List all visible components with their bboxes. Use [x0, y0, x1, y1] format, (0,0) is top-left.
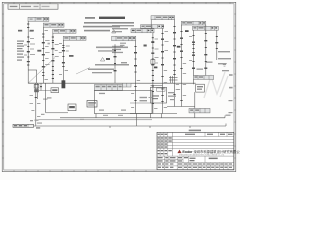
V3 side text marks — [48, 43, 59, 57]
breakers on VR136 — [134, 46, 137, 73]
main horizontal bus y83 — [28, 82, 195, 84]
svg-text:SHENZHEN KEYUAN ARCHITECTURAL: SHENZHEN KEYUAN ARCHITECTURAL DESIGN CO.… — [179, 154, 225, 157]
designator label WL1 — [18, 30, 22, 32]
right feeder header strip R3b — [193, 26, 219, 30]
feeder header strip S3 — [53, 29, 76, 33]
feeder wire VR183 — [181, 25, 183, 107]
feeder wire V1 — [27, 21, 29, 70]
contactor block on V4 — [62, 80, 66, 88]
load calc text block — [83, 22, 134, 31]
panel outline rectangle — [94, 91, 152, 114]
right feeder header strip R2a — [141, 25, 164, 29]
mid text rows — [96, 47, 128, 52]
leader line from box B1 — [29, 58, 55, 83]
breaker symbols on V4 — [62, 45, 65, 63]
bottom grid dividers — [188, 163, 229, 170]
title block middle dividers — [165, 156, 206, 170]
breaker symbols on V2 — [42, 37, 45, 74]
title block upper column dividers — [160, 132, 227, 156]
R4 under-strip text — [120, 43, 126, 46]
watermark diagonal strokes — [204, 72, 228, 98]
bottom-left strip — [13, 124, 34, 127]
component speckle marks — [27, 24, 198, 117]
company logo triangle — [177, 150, 181, 154]
label box L3 — [68, 104, 76, 111]
right feeder header strip R4 — [112, 36, 136, 41]
tick marks on bottom bus — [110, 126, 190, 128]
horizontal segment y106.5 — [167, 106, 195, 108]
box R with text — [196, 84, 205, 92]
warning triangle 1 — [112, 30, 116, 33]
leader diagonal to note — [76, 68, 90, 75]
feeder wire VR176 — [174, 20, 176, 107]
feeder wire VR206 — [205, 25, 207, 76]
horizontal long line y117.8 — [60, 117, 225, 119]
feeder wire VR115 — [114, 44, 116, 83]
revision row texts — [158, 137, 172, 154]
title block row A texts — [158, 134, 233, 135]
CT box on VR152 — [151, 60, 155, 65]
connector drops to bus — [96, 113, 226, 126]
V1 side text marks — [24, 38, 35, 56]
feeder wire VR161 — [162, 28, 164, 113]
feeder wire V3 — [52, 33, 54, 83]
ground symbol right — [222, 64, 227, 67]
VR161 side text — [165, 31, 169, 51]
distribution box B1 — [28, 70, 36, 83]
horizontal long line y126 — [13, 125, 226, 127]
title block horizontal rules — [157, 137, 234, 166]
V4 side text marks — [59, 46, 70, 54]
connector to label box L1 — [39, 90, 51, 92]
VR176 crossing bars — [169, 76, 178, 83]
VR150 side text — [155, 39, 159, 64]
feeder wire V4 — [62, 40, 64, 83]
svg-text:深圳市科源建筑设计研究有限公司: 深圳市科源建筑设计研究有限公司 — [194, 149, 241, 154]
right feeder header strip R1 — [151, 16, 175, 20]
breaker symbols on V1 — [27, 37, 30, 63]
V2 side text marks — [45, 40, 50, 65]
inner border frame — [4, 4, 234, 170]
triangle label — [106, 58, 110, 60]
label text near VR152 — [144, 45, 147, 47]
text above box R — [197, 62, 213, 70]
breakers on VR195 — [192, 35, 195, 69]
feeder header strip S1 — [28, 17, 49, 21]
label box L1 — [51, 88, 59, 93]
breakers on VR176 — [173, 26, 176, 66]
right feeder header strip R2b — [181, 21, 206, 25]
warning triangle 2 — [100, 58, 104, 62]
feeder header strip S2 — [43, 23, 64, 27]
bottom grid texts — [158, 163, 232, 168]
right feeder header strip RX — [131, 29, 154, 33]
border tick marks — [2, 2, 236, 171]
feeder wire VR136 — [135, 41, 137, 114]
diagram title text — [85, 17, 125, 19]
meter cluster below B1 — [34, 83, 42, 126]
feeder wire VR216 — [216, 30, 218, 60]
revision strip top-left — [8, 4, 58, 9]
horizontal line y121 — [37, 119, 152, 121]
V2 side text label — [37, 50, 41, 52]
breakers on VR183 — [180, 31, 183, 58]
right top text block — [112, 25, 134, 63]
company logo wordmark — [182, 150, 193, 154]
feeder drop wire x45.7 — [41, 83, 68, 115]
meter label text — [30, 95, 48, 104]
breakers on VR161 — [161, 33, 164, 65]
panel inner text — [99, 93, 147, 111]
breakers on VR206 — [204, 33, 207, 69]
right margin marks lower — [229, 74, 233, 113]
feeder wire V2 — [42, 27, 44, 83]
V4 side text label — [69, 55, 74, 57]
breaker symbols on V3 — [51, 42, 54, 67]
panel gray header strip — [94, 85, 122, 91]
right margin text rows — [218, 51, 231, 71]
outer border frame — [2, 2, 236, 171]
R1 left stub wire — [150, 20, 152, 29]
panel strip extension cells — [123, 83, 132, 87]
feeder header strip S4 — [63, 36, 86, 40]
middle note text block — [88, 64, 129, 73]
bus annotation marks — [80, 115, 123, 120]
dark designator labels right group — [154, 30, 189, 68]
breakers on VR115 — [114, 50, 117, 71]
company subtitle line — [179, 154, 225, 157]
bus stub y85.5 — [151, 85, 163, 87]
title block outline — [157, 132, 234, 169]
text above bottom strip — [30, 120, 42, 124]
bus end text right — [226, 115, 231, 116]
label box L2 — [87, 101, 97, 108]
cable spec text column left — [17, 41, 24, 61]
designator label WL2 — [30, 30, 34, 32]
breakers on VR216 — [215, 36, 218, 49]
feeder wire VR195 — [193, 30, 195, 84]
gray strip right upper — [193, 76, 213, 80]
breakers on VR150 — [151, 37, 154, 71]
horizontal segment y113.5 — [130, 113, 177, 115]
feeder wire VR150 — [152, 33, 154, 114]
gray strip right lower — [189, 108, 210, 113]
project name cell texts — [158, 157, 218, 162]
vertical wire from box R — [194, 92, 196, 108]
text below bottom strip — [36, 127, 40, 128]
text above title block — [189, 130, 201, 132]
switchgear box M1 — [130, 87, 167, 103]
svg-text:Ecolor: Ecolor — [182, 150, 193, 154]
company name characters — [194, 149, 243, 154]
small text right mid — [168, 92, 176, 100]
